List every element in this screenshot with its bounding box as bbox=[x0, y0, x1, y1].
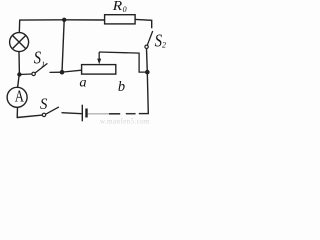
svg-text:b: b bbox=[118, 79, 126, 95]
label S2 bbox=[155, 31, 166, 51]
wire bottom-right solid segment bbox=[139, 113, 149, 115]
switch S contact circle bbox=[42, 113, 45, 116]
svg-text:S: S bbox=[155, 31, 162, 51]
wire bottom dash 1 bbox=[126, 113, 136, 115]
label S1 bbox=[34, 48, 45, 69]
svg-text:w.manfen5.com: w.manfen5.com bbox=[100, 118, 150, 126]
wire mid junction to rheostat left terminal bbox=[62, 70, 82, 72]
wire right rail junction to bottom-right corner bbox=[147, 72, 148, 114]
rheostat slider arrow shaft bbox=[98, 52, 100, 60]
svg-text:a: a bbox=[79, 76, 86, 91]
node right junction (dot) bbox=[145, 70, 150, 75]
svg-text:2: 2 bbox=[162, 41, 166, 50]
battery positive plate (long thin) bbox=[81, 105, 83, 122]
switch S2 blade bbox=[147, 31, 152, 45]
switch S1 blade bbox=[35, 63, 47, 73]
rheostat box bbox=[82, 65, 116, 75]
resistor R0 (box) bbox=[105, 15, 136, 24]
wire top junction to resistor bbox=[64, 19, 104, 21]
label R0 bbox=[112, 0, 127, 14]
wire lamp bottom to junction bbox=[18, 52, 20, 75]
wire top-left corner to lamp top bbox=[18, 20, 20, 33]
node top junction (dot) bbox=[62, 18, 66, 22]
svg-text:0: 0 bbox=[123, 5, 127, 14]
wire right rail S2 to junction bbox=[146, 49, 149, 73]
rheostat slider arrowhead bbox=[97, 59, 101, 65]
svg-text:1: 1 bbox=[41, 59, 45, 68]
wire battery to switch S stub bbox=[62, 113, 82, 114]
wire junction to ammeter top bbox=[18, 75, 20, 88]
wire slider up and right bbox=[99, 52, 147, 72]
lamp L (circle with X) bbox=[10, 33, 29, 52]
wire ammeter bottom to bottom-left corner bbox=[16, 107, 18, 118]
svg-text:S: S bbox=[40, 96, 47, 113]
switch S1 contact circle bbox=[32, 72, 35, 75]
wire S1 branch left bbox=[19, 73, 32, 76]
battery negative plate (short thick) bbox=[85, 109, 87, 118]
switch S blade bbox=[46, 107, 59, 114]
svg-text:A: A bbox=[15, 87, 25, 106]
node junction left (dot) bbox=[17, 72, 21, 76]
wire bottom dash 2 bbox=[109, 113, 120, 115]
wire S1 blade to mid junction bbox=[50, 71, 63, 73]
wire vertical top junction to mid junction bbox=[62, 20, 64, 72]
wire top horizontal left segment bbox=[19, 19, 64, 21]
wire S circle to bottom-left corner bbox=[17, 115, 42, 117]
wire bottom faint segment bbox=[88, 113, 109, 115]
ammeter A bbox=[7, 87, 27, 108]
svg-text:S: S bbox=[34, 48, 41, 68]
wire resistor right to top-right bend bbox=[135, 19, 152, 28]
svg-text:R: R bbox=[112, 0, 123, 14]
node mid junction (dot) bbox=[60, 70, 65, 75]
switch S2 contact circle bbox=[145, 45, 148, 48]
